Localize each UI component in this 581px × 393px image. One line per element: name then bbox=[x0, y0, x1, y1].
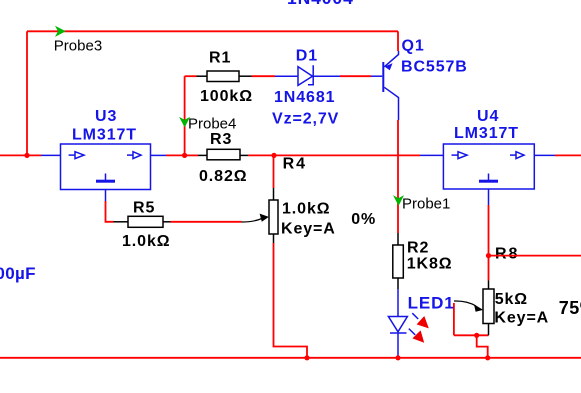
svg-text:Key=A: Key=A bbox=[281, 221, 336, 238]
wire: R5 to pot1 wiper bbox=[171, 221, 242, 223]
regulator U3 bbox=[41, 144, 166, 201]
probe Probe4 arrow bbox=[179, 117, 190, 128]
wire: junction to R3 bbox=[185, 154, 198, 156]
svg-text:Key=A: Key=A bbox=[494, 310, 549, 327]
svg-text:LM317T: LM317T bbox=[72, 127, 137, 144]
ground symbol inside U4 bbox=[479, 174, 498, 183]
wire: main rail left segment bbox=[0, 154, 41, 156]
potentiometer 1.0k Key=A bbox=[242, 188, 279, 243]
wire: rail to U4 bbox=[274, 154, 420, 156]
svg-text:BC557B: BC557B bbox=[401, 59, 468, 76]
node: junction pot2 to ground rail bbox=[485, 355, 490, 360]
wire: Q1 collector down through rail to R2 bbox=[397, 120, 399, 233]
wire: pot1 bottom run bbox=[274, 243, 308, 358]
node: junction rail/pot1 bbox=[271, 153, 276, 158]
wire: bottom ground rail bbox=[0, 357, 581, 359]
node: junction U4-adj/R8 bbox=[486, 253, 491, 258]
wire: U4 right output bbox=[555, 154, 581, 156]
node: junction R1/R3 branch bbox=[182, 153, 187, 158]
wire: R1 branch vertical bbox=[184, 76, 186, 155]
resistor R3 bbox=[198, 149, 248, 160]
wire: pot2 wiper drop bbox=[453, 303, 455, 335]
LED light arrow 2 bbox=[412, 330, 424, 342]
probe Probe3 arrow bbox=[55, 26, 66, 37]
svg-text:U4: U4 bbox=[477, 108, 499, 125]
node: junction at left rail bbox=[24, 153, 29, 158]
resistor R1 bbox=[197, 71, 252, 82]
svg-text:R1: R1 bbox=[209, 50, 231, 67]
LED LED1 bbox=[388, 289, 418, 358]
wire: top-left vertical bbox=[26, 31, 28, 155]
wire: R1 to D1 bbox=[252, 75, 276, 77]
svg-text:R3: R3 bbox=[210, 131, 232, 148]
wire: pot2 top feed bbox=[488, 256, 490, 281]
wire: rail U3 right to junction bbox=[166, 154, 185, 156]
svg-text:Probe1: Probe1 bbox=[402, 196, 450, 213]
wire: U3 adj to R5 bbox=[106, 201, 114, 222]
svg-text:1.0kΩ: 1.0kΩ bbox=[282, 200, 330, 217]
svg-text:1K8Ω: 1K8Ω bbox=[407, 255, 453, 272]
ground symbol inside U3 bbox=[96, 174, 115, 183]
svg-text:100kΩ: 100kΩ bbox=[200, 88, 253, 105]
resistor R2 bbox=[393, 233, 404, 289]
wire: D1 to Q1 base bbox=[340, 75, 371, 77]
wire: pot2 wiper to bottom terminal bbox=[454, 334, 489, 336]
svg-text:U3: U3 bbox=[95, 108, 117, 125]
svg-text:R8: R8 bbox=[495, 245, 519, 262]
svg-text:5kΩ: 5kΩ bbox=[495, 291, 528, 308]
svg-text:00µF: 00µF bbox=[0, 264, 36, 283]
svg-text:Probe4: Probe4 bbox=[188, 115, 236, 132]
svg-text:LM317T: LM317T bbox=[454, 125, 519, 142]
LED light arrow 1 bbox=[417, 316, 429, 328]
svg-text:1N4004: 1N4004 bbox=[287, 0, 354, 8]
svg-text:R4: R4 bbox=[283, 156, 307, 173]
svg-text:0%: 0% bbox=[351, 211, 376, 228]
svg-text:R5: R5 bbox=[133, 200, 155, 217]
svg-text:Vz=2,7V: Vz=2,7V bbox=[272, 110, 339, 127]
node: junction pot1 to ground rail bbox=[304, 355, 309, 360]
svg-text:75%: 75% bbox=[559, 298, 581, 318]
svg-text:0.82Ω: 0.82Ω bbox=[199, 168, 247, 185]
svg-text:D1: D1 bbox=[296, 48, 318, 65]
wire: R3 to pot junction bbox=[248, 154, 274, 156]
resistor R5 bbox=[114, 216, 171, 227]
wire: top horizontal rail bbox=[27, 30, 398, 32]
wire: pot2 to ground rail bbox=[477, 335, 488, 358]
svg-text:R2: R2 bbox=[407, 239, 429, 256]
svg-text:1.0kΩ: 1.0kΩ bbox=[122, 233, 170, 250]
wire: R1 left feed bbox=[185, 75, 197, 77]
svg-text:Probe3: Probe3 bbox=[54, 38, 102, 55]
wire: pot1 top feed bbox=[273, 155, 275, 188]
wire: Q1 emitter feed bbox=[397, 31, 399, 51]
node: junction LED to ground rail bbox=[395, 355, 400, 360]
svg-text:Q1: Q1 bbox=[402, 37, 425, 54]
wire: U4 adj down bbox=[488, 205, 490, 256]
probe Probe1 arrow bbox=[393, 195, 404, 206]
svg-text:1N4681: 1N4681 bbox=[274, 89, 335, 106]
zener diode D1 bbox=[275, 65, 340, 85]
transistor Q1 BC557B bbox=[371, 51, 399, 120]
wire: R8 feed to right edge bbox=[489, 255, 581, 257]
svg-text:LED1: LED1 bbox=[408, 294, 455, 313]
node: junction pot2 wiper/bottom bbox=[474, 333, 479, 338]
potentiometer 5k Key=A bbox=[454, 281, 494, 336]
regulator U4 box bbox=[420, 144, 555, 205]
